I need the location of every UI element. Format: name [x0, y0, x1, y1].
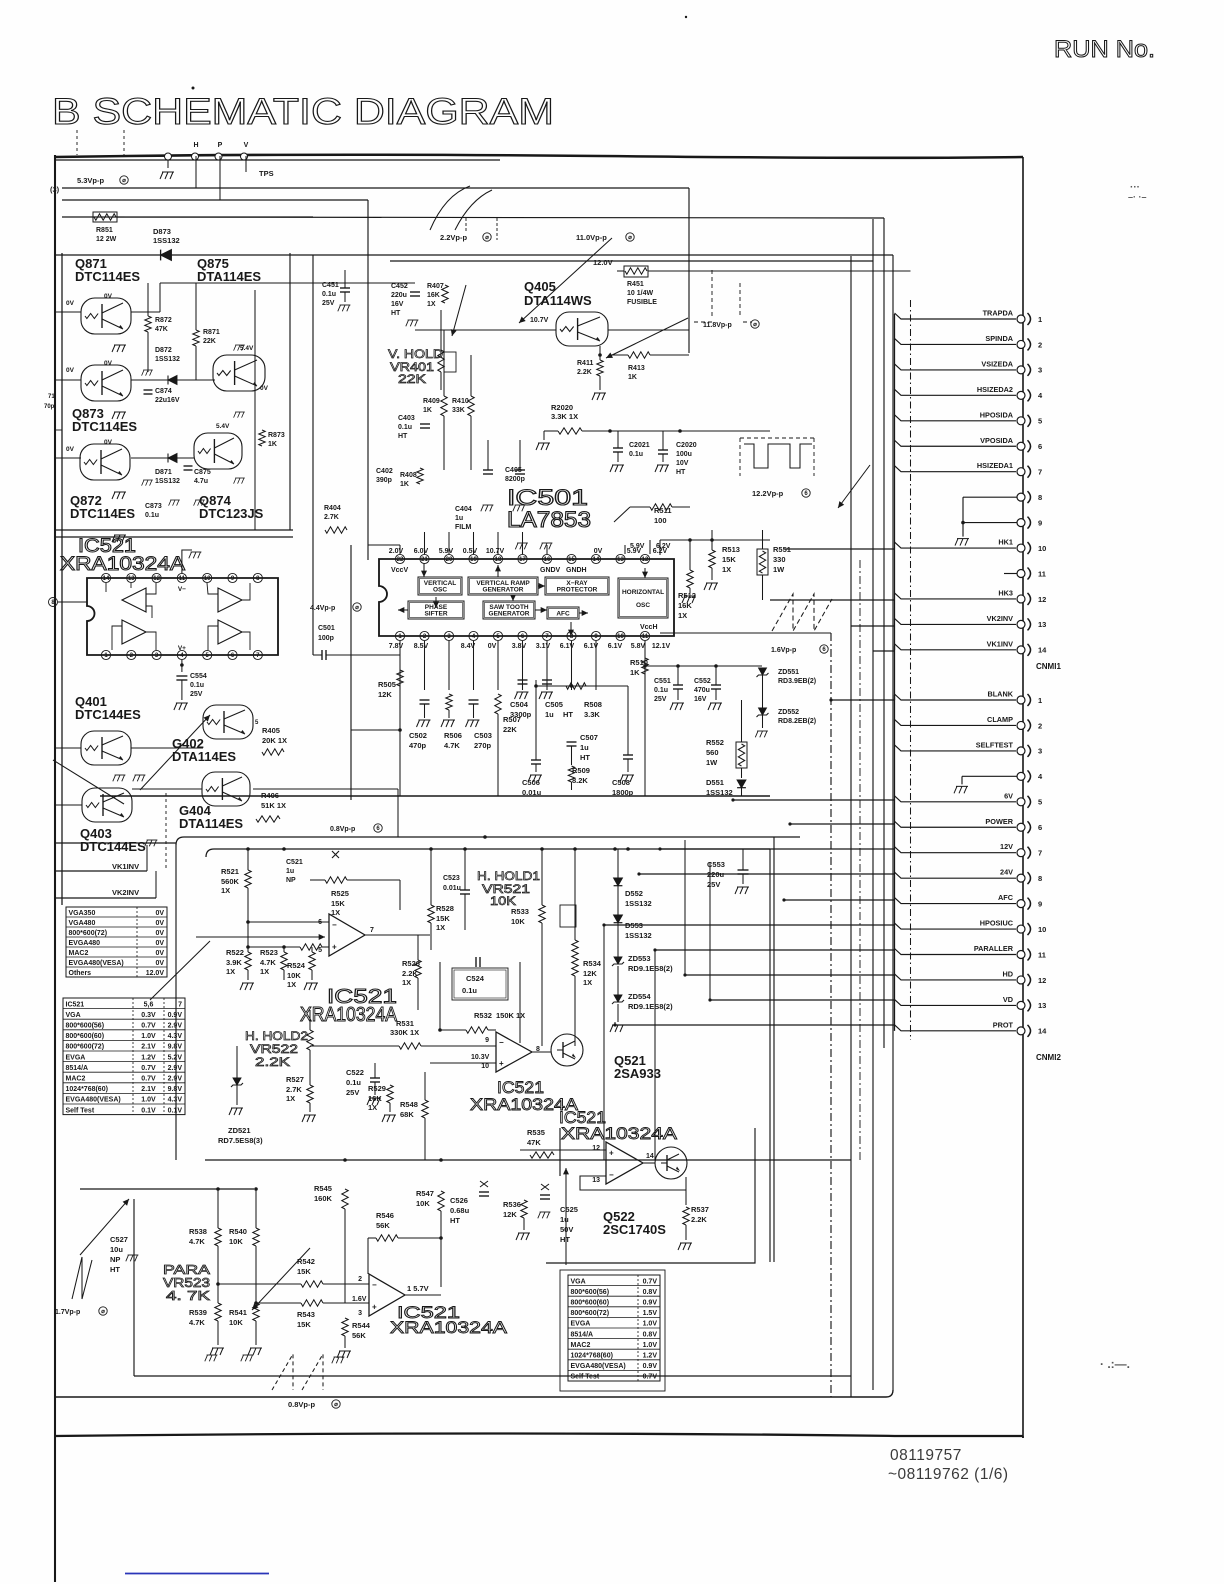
svg-text:BLANK: BLANK: [987, 690, 1013, 699]
svg-text:14: 14: [103, 576, 110, 582]
svg-text:4.7K: 4.7K: [260, 958, 276, 967]
svg-text:ZD551: ZD551: [778, 669, 799, 676]
svg-text:390p: 390p: [376, 477, 392, 484]
svg-text:VGA480: VGA480: [69, 920, 96, 927]
svg-text:C524: C524: [466, 974, 485, 983]
svg-text:0.7V: 0.7V: [141, 1065, 156, 1072]
svg-text:1X: 1X: [226, 967, 235, 976]
svg-text:DTA114WS: DTA114WS: [524, 293, 592, 308]
svg-text:0.1u: 0.1u: [398, 424, 412, 431]
svg-text:C552: C552: [694, 678, 711, 685]
svg-text:10K: 10K: [511, 917, 525, 926]
svg-text:C522: C522: [346, 1068, 364, 1077]
svg-text:OSC: OSC: [433, 587, 447, 594]
svg-text:R541: R541: [229, 1308, 247, 1317]
svg-text:NP: NP: [286, 877, 296, 884]
svg-text:0.68u: 0.68u: [450, 1206, 470, 1215]
svg-text:R2020: R2020: [551, 403, 573, 412]
svg-text:R543: R543: [297, 1310, 315, 1319]
svg-text:10K: 10K: [287, 971, 301, 980]
svg-text:5: 5: [1038, 417, 1042, 426]
svg-text:HK1: HK1: [998, 538, 1013, 547]
svg-text:4.7K: 4.7K: [189, 1318, 205, 1327]
svg-text:0V: 0V: [104, 360, 113, 367]
svg-text:R522: R522: [226, 948, 244, 957]
svg-text:⌀: ⌀: [485, 235, 489, 241]
svg-text:5.2V: 5.2V: [168, 1054, 183, 1061]
svg-text:10K: 10K: [490, 894, 516, 908]
svg-text:3.1V: 3.1V: [536, 643, 551, 650]
svg-text:0V: 0V: [260, 385, 269, 392]
svg-text:560: 560: [706, 748, 719, 757]
svg-text:47K: 47K: [155, 326, 168, 333]
svg-text:0.8Vp-p: 0.8Vp-p: [288, 1400, 316, 1409]
svg-text:12.0V: 12.0V: [146, 970, 165, 977]
svg-text:D552: D552: [625, 889, 643, 898]
svg-text:+: +: [372, 1303, 377, 1312]
svg-text:Self Test: Self Test: [571, 1374, 600, 1381]
svg-text:13: 13: [1038, 620, 1046, 629]
svg-text:5.4V: 5.4V: [216, 423, 230, 430]
svg-text:56K: 56K: [376, 1221, 390, 1230]
svg-text:13: 13: [617, 557, 624, 563]
svg-text:0V: 0V: [104, 293, 113, 300]
svg-text:DTC144ES: DTC144ES: [80, 839, 146, 854]
svg-text:22K: 22K: [203, 338, 216, 345]
svg-text:0.01u: 0.01u: [443, 885, 461, 892]
svg-text:R548: R548: [400, 1100, 418, 1109]
svg-text:XRA10324A: XRA10324A: [60, 554, 185, 575]
svg-text:HT: HT: [563, 710, 573, 719]
svg-text:5.9V: 5.9V: [439, 548, 454, 555]
svg-text:C505: C505: [545, 700, 563, 709]
svg-text:1K: 1K: [400, 481, 409, 488]
svg-text:0.3V: 0.3V: [141, 1012, 156, 1019]
svg-text:~08119762 (1/6): ~08119762 (1/6): [888, 1466, 1009, 1483]
svg-text:1: 1: [1038, 315, 1042, 324]
svg-text:22u16V: 22u16V: [155, 397, 180, 404]
svg-text:C451: C451: [322, 282, 339, 289]
svg-text:RD9.1ES8(2): RD9.1ES8(2): [628, 964, 673, 973]
svg-text:22K: 22K: [398, 372, 426, 386]
svg-text:33K: 33K: [452, 407, 465, 414]
svg-text:800*600(72): 800*600(72): [66, 1044, 105, 1051]
svg-text:C873: C873: [145, 503, 162, 510]
svg-text:HPOSIUC: HPOSIUC: [980, 919, 1014, 928]
svg-text:0V: 0V: [66, 300, 75, 307]
svg-text:11.0Vp-p: 11.0Vp-p: [576, 233, 607, 242]
svg-text:HT: HT: [398, 433, 408, 440]
svg-text:0V: 0V: [155, 940, 164, 947]
svg-text:HT: HT: [450, 1216, 460, 1225]
svg-text:3: 3: [358, 1310, 362, 1317]
svg-text:0.1u: 0.1u: [629, 451, 643, 458]
svg-text:GENERATOR: GENERATOR: [483, 587, 524, 594]
svg-text:R551: R551: [773, 545, 791, 554]
svg-text:470p: 470p: [409, 741, 427, 750]
svg-text:1u: 1u: [560, 1215, 569, 1224]
svg-text:6.1V: 6.1V: [608, 643, 623, 650]
svg-text:−: −: [609, 1171, 614, 1180]
svg-text:2: 2: [358, 1276, 362, 1283]
svg-text:R533: R533: [511, 907, 529, 916]
svg-text:MAC2: MAC2: [66, 1075, 86, 1082]
svg-text:0.1u: 0.1u: [322, 291, 336, 298]
svg-text:16: 16: [544, 557, 551, 563]
svg-text:6.0V: 6.0V: [414, 548, 429, 555]
svg-text:15K: 15K: [297, 1267, 311, 1276]
svg-text:C507: C507: [580, 733, 598, 742]
svg-text:5: 5: [318, 947, 322, 954]
svg-text:R539: R539: [189, 1308, 207, 1317]
svg-text:R872: R872: [155, 317, 172, 324]
svg-text:0V: 0V: [155, 920, 164, 927]
svg-text:0.1u: 0.1u: [346, 1078, 361, 1087]
svg-text:VccH: VccH: [640, 624, 658, 631]
svg-text:800*600(60): 800*600(60): [571, 1299, 610, 1306]
svg-text:1X: 1X: [287, 980, 296, 989]
svg-text:220u: 220u: [391, 292, 407, 299]
svg-text:71: 71: [48, 394, 55, 400]
svg-text:18: 18: [495, 557, 502, 563]
svg-text:C503: C503: [474, 731, 492, 740]
svg-text:ZD521: ZD521: [228, 1126, 251, 1135]
svg-text:8200p: 8200p: [505, 476, 525, 483]
svg-text:HORIZONTAL: HORIZONTAL: [622, 589, 664, 596]
svg-text:1.2V: 1.2V: [643, 1352, 658, 1359]
svg-text:2.7K: 2.7K: [286, 1085, 302, 1094]
svg-text:14: 14: [646, 1153, 654, 1160]
svg-text:11.8Vp-p: 11.8Vp-p: [703, 322, 732, 329]
svg-text:10u: 10u: [110, 1245, 123, 1254]
svg-text:PARALLER: PARALLER: [974, 944, 1014, 953]
svg-text:4.7K: 4.7K: [444, 741, 460, 750]
svg-text:0.9V: 0.9V: [643, 1299, 658, 1306]
svg-text:VK1INV: VK1INV: [112, 862, 139, 871]
svg-text:ZD553: ZD553: [628, 954, 651, 963]
svg-text:C452: C452: [391, 283, 408, 290]
svg-text:800*600(72): 800*600(72): [571, 1310, 610, 1317]
svg-text:1024*768(60): 1024*768(60): [571, 1352, 613, 1359]
svg-text:1SS132: 1SS132: [706, 788, 733, 797]
svg-text:RUN No.: RUN No.: [1054, 36, 1155, 63]
svg-text:R411: R411: [577, 360, 593, 367]
svg-text:D871: D871: [155, 469, 172, 476]
svg-text:C504: C504: [510, 700, 529, 709]
svg-text:0.7V: 0.7V: [141, 1022, 156, 1029]
svg-text:10 1/4W: 10 1/4W: [627, 290, 653, 297]
svg-text:16K: 16K: [678, 601, 692, 610]
svg-text:1.2V: 1.2V: [141, 1054, 156, 1061]
svg-text:12: 12: [642, 557, 649, 563]
svg-text:EVGA480(VESA): EVGA480(VESA): [69, 960, 124, 967]
svg-text:9.8V: 9.8V: [168, 1044, 183, 1051]
svg-text:3300p: 3300p: [510, 710, 532, 719]
svg-text:SIFTER: SIFTER: [424, 611, 447, 618]
svg-text:XRA10324A: XRA10324A: [561, 1124, 678, 1143]
svg-text:25V: 25V: [707, 880, 720, 889]
svg-text:V−: V−: [178, 586, 186, 593]
svg-text:15K: 15K: [297, 1320, 311, 1329]
svg-text:100u: 100u: [676, 451, 692, 458]
svg-text:MAC2: MAC2: [69, 950, 89, 957]
svg-text:08119757: 08119757: [890, 1447, 962, 1464]
svg-text:8: 8: [1038, 493, 1042, 502]
svg-text:9: 9: [1038, 518, 1042, 527]
svg-text:VGA350: VGA350: [69, 910, 96, 917]
svg-text:330: 330: [773, 555, 786, 564]
svg-text:10.3V: 10.3V: [471, 1054, 490, 1061]
svg-text:+: +: [332, 943, 337, 952]
svg-text:8514/A: 8514/A: [571, 1331, 594, 1338]
svg-text:0V: 0V: [155, 950, 164, 957]
svg-text:1X: 1X: [678, 611, 687, 620]
svg-text:R547: R547: [416, 1189, 434, 1198]
svg-text:800*600(56): 800*600(56): [571, 1289, 610, 1296]
svg-text:IC521: IC521: [66, 1001, 85, 1008]
svg-text:HT: HT: [676, 469, 686, 476]
svg-text:5,6: 5,6: [144, 1001, 154, 1008]
svg-text:1X: 1X: [583, 978, 592, 987]
svg-text:0.8Vp-p: 0.8Vp-p: [330, 826, 355, 833]
svg-text:2: 2: [1038, 721, 1042, 730]
svg-text:3: 3: [1038, 366, 1042, 375]
svg-text:11: 11: [1038, 569, 1046, 578]
svg-text:CLAMP: CLAMP: [987, 715, 1013, 724]
svg-text:PROTECTOR: PROTECTOR: [557, 587, 598, 594]
svg-text:10K: 10K: [416, 1199, 430, 1208]
svg-text:XRA10324A: XRA10324A: [300, 1004, 398, 1026]
svg-text:C501: C501: [318, 625, 335, 632]
svg-text:150K 1X: 150K 1X: [496, 1011, 525, 1020]
svg-text:4.4Vp-p: 4.4Vp-p: [310, 605, 335, 612]
svg-text:VK2INV: VK2INV: [987, 614, 1013, 623]
svg-text:R545: R545: [314, 1184, 332, 1193]
svg-text:3.8V: 3.8V: [512, 643, 527, 650]
svg-text:4. 7K: 4. 7K: [166, 1288, 210, 1303]
svg-text:R538: R538: [189, 1227, 207, 1236]
svg-text:−: −: [372, 1280, 377, 1289]
svg-text:100: 100: [654, 516, 667, 525]
svg-text:1K: 1K: [630, 668, 640, 677]
svg-text:+: +: [499, 1059, 504, 1068]
svg-text:0.7V: 0.7V: [643, 1278, 658, 1285]
svg-text:R413: R413: [628, 365, 645, 372]
svg-text:10: 10: [1038, 544, 1046, 553]
svg-text:SPINDA: SPINDA: [985, 334, 1013, 343]
svg-text:1u: 1u: [455, 515, 463, 522]
svg-text:330K 1X: 330K 1X: [390, 1028, 419, 1037]
svg-text:D873: D873: [153, 227, 171, 236]
svg-text:VccV: VccV: [391, 567, 408, 574]
svg-text:RD3.9EB(2): RD3.9EB(2): [778, 678, 816, 685]
svg-text:12.2Vp-p: 12.2Vp-p: [752, 489, 784, 498]
svg-text:C404: C404: [455, 506, 472, 513]
svg-text:⌀: ⌀: [628, 235, 632, 241]
svg-text:P: P: [218, 142, 223, 149]
svg-text:B SCHEMATIC DIAGRAM: B SCHEMATIC DIAGRAM: [52, 91, 554, 132]
svg-text:2.2K: 2.2K: [691, 1215, 707, 1224]
svg-text:RD9.1ES8(2): RD9.1ES8(2): [628, 1002, 673, 1011]
svg-text:C553: C553: [707, 860, 725, 869]
svg-text:2.7K: 2.7K: [324, 514, 339, 521]
svg-text:R410: R410: [452, 398, 469, 405]
svg-text:3: 3: [1038, 747, 1042, 756]
svg-text:800*600(72): 800*600(72): [69, 930, 108, 937]
svg-text:VD: VD: [1003, 995, 1013, 1004]
svg-text:12 2W: 12 2W: [96, 236, 117, 243]
svg-text:9: 9: [485, 1037, 489, 1044]
svg-text:HK3: HK3: [998, 588, 1013, 597]
svg-text:CNMI2: CNMI2: [1036, 1053, 1061, 1062]
svg-text:12K: 12K: [378, 690, 392, 699]
svg-text:7.8V: 7.8V: [389, 643, 404, 650]
svg-text:C525: C525: [560, 1205, 578, 1214]
svg-text:R405: R405: [262, 726, 280, 735]
svg-text:C2020: C2020: [676, 442, 697, 449]
svg-text:1SS132: 1SS132: [155, 356, 180, 363]
svg-text:EVGA480(VESA): EVGA480(VESA): [571, 1363, 626, 1370]
svg-text:1.0V: 1.0V: [643, 1342, 658, 1349]
svg-text:−: −: [499, 1038, 504, 1047]
svg-text:0.8V: 0.8V: [643, 1289, 658, 1296]
svg-text:Others: Others: [69, 970, 92, 977]
svg-text:10V: 10V: [676, 460, 689, 467]
svg-text:R537: R537: [691, 1205, 709, 1214]
svg-text:9: 9: [1038, 899, 1042, 908]
svg-text:1u: 1u: [580, 743, 589, 752]
svg-text:51K 1X: 51K 1X: [261, 801, 286, 810]
svg-text:2.9V: 2.9V: [168, 1075, 183, 1082]
svg-text:14: 14: [1038, 646, 1047, 655]
svg-text:R851: R851: [96, 227, 113, 234]
svg-text:1u: 1u: [545, 710, 554, 719]
svg-text:6: 6: [1038, 823, 1042, 832]
svg-text:R873: R873: [268, 432, 285, 439]
svg-text:DTC123JS: DTC123JS: [199, 506, 264, 521]
svg-text:0.9V: 0.9V: [643, 1363, 658, 1370]
svg-text:R531: R531: [396, 1019, 414, 1028]
svg-text:1K: 1K: [423, 407, 432, 414]
svg-text:V: V: [244, 142, 249, 149]
svg-text:Q405: Q405: [524, 279, 556, 294]
svg-text:4.7K: 4.7K: [189, 1237, 205, 1246]
svg-text:7: 7: [178, 1001, 182, 1008]
svg-text:AFC: AFC: [998, 893, 1014, 902]
svg-text:1u: 1u: [286, 868, 294, 875]
svg-text:5.8V: 5.8V: [631, 643, 646, 650]
svg-text:4.7u: 4.7u: [194, 478, 208, 485]
svg-text:1K: 1K: [628, 374, 637, 381]
svg-text:HSIZEDA2: HSIZEDA2: [977, 385, 1013, 394]
svg-text:TRAPDA: TRAPDA: [983, 309, 1014, 318]
svg-text:0.01u: 0.01u: [522, 788, 542, 797]
svg-text:470u: 470u: [694, 687, 710, 694]
svg-text:1SS132: 1SS132: [625, 899, 652, 908]
svg-text:D551: D551: [706, 778, 724, 787]
svg-text:C554: C554: [190, 673, 207, 680]
svg-text:10: 10: [481, 1063, 489, 1070]
svg-text:TPS: TPS: [259, 169, 274, 178]
svg-text:15K: 15K: [436, 914, 450, 923]
svg-text:13: 13: [128, 576, 135, 582]
svg-text:560K: 560K: [221, 877, 240, 886]
svg-text:XRA10324A: XRA10324A: [390, 1318, 508, 1337]
svg-text:0V: 0V: [104, 439, 113, 446]
svg-text:GNDH: GNDH: [566, 567, 587, 574]
svg-text:H. HOLD2: H. HOLD2: [245, 1029, 308, 1043]
svg-text:GENERATOR: GENERATOR: [489, 611, 530, 618]
svg-text:0.1u: 0.1u: [145, 512, 159, 519]
svg-text:4.3V: 4.3V: [168, 1033, 183, 1040]
svg-text:1.6V: 1.6V: [352, 1296, 367, 1303]
svg-text:D872: D872: [155, 347, 172, 354]
svg-text:H. HOLD1: H. HOLD1: [477, 869, 540, 883]
svg-text:10.7V: 10.7V: [530, 317, 549, 324]
svg-text:H: H: [193, 142, 198, 149]
svg-text:10K: 10K: [229, 1318, 243, 1327]
svg-text:0V: 0V: [155, 930, 164, 937]
svg-text:C527: C527: [110, 1235, 128, 1244]
svg-text:0.9V: 0.9V: [168, 1012, 183, 1019]
svg-text:SELFTEST: SELFTEST: [976, 740, 1014, 749]
svg-text:2SA933: 2SA933: [614, 1066, 661, 1081]
svg-text:1.5V: 1.5V: [643, 1310, 658, 1317]
svg-text:VGA: VGA: [571, 1278, 586, 1285]
svg-text:70p: 70p: [44, 404, 55, 410]
svg-text:OSC: OSC: [636, 602, 650, 609]
svg-text:HT: HT: [580, 753, 590, 762]
svg-text:25V: 25V: [654, 696, 667, 703]
svg-text:R523: R523: [260, 948, 278, 957]
svg-text:C523: C523: [443, 875, 460, 882]
svg-text:C403: C403: [398, 415, 415, 422]
svg-text:C874: C874: [155, 388, 172, 395]
svg-text:1W: 1W: [773, 565, 785, 574]
svg-text:10: 10: [617, 634, 624, 640]
svg-text:R532: R532: [474, 1011, 492, 1020]
svg-text:0V: 0V: [155, 910, 164, 917]
svg-text:1SS132: 1SS132: [155, 478, 180, 485]
svg-text:1W: 1W: [706, 758, 718, 767]
svg-text:VGA: VGA: [66, 1012, 81, 1019]
svg-text:EVGA: EVGA: [66, 1054, 86, 1061]
svg-text:16V: 16V: [694, 696, 707, 703]
svg-text:2.2Vp-p: 2.2Vp-p: [440, 233, 468, 242]
svg-text:0.7V: 0.7V: [141, 1075, 156, 1082]
svg-text:FUSIBLE: FUSIBLE: [627, 299, 657, 306]
svg-text:R521: R521: [221, 867, 239, 876]
svg-text:HT: HT: [110, 1265, 120, 1274]
svg-text:25V: 25V: [190, 691, 203, 698]
svg-text:22: 22: [397, 557, 404, 563]
svg-text:5: 5: [1038, 798, 1042, 807]
svg-text:1.0V: 1.0V: [141, 1033, 156, 1040]
svg-text:HD: HD: [1002, 969, 1013, 978]
svg-text:DTA114ES: DTA114ES: [172, 749, 236, 764]
svg-text:0.1V: 0.1V: [168, 1107, 183, 1114]
svg-text:20K 1X: 20K 1X: [262, 736, 287, 745]
svg-text:1024*768(60): 1024*768(60): [66, 1086, 108, 1093]
svg-text:R524: R524: [287, 961, 306, 970]
svg-text:C551: C551: [654, 678, 671, 685]
svg-text:0.5V: 0.5V: [463, 548, 478, 555]
svg-text:C526: C526: [450, 1196, 468, 1205]
svg-text:16K: 16K: [368, 1094, 382, 1103]
svg-text:−: −: [332, 920, 337, 929]
svg-text:EVGA: EVGA: [571, 1321, 591, 1328]
svg-text:R536: R536: [503, 1200, 521, 1209]
